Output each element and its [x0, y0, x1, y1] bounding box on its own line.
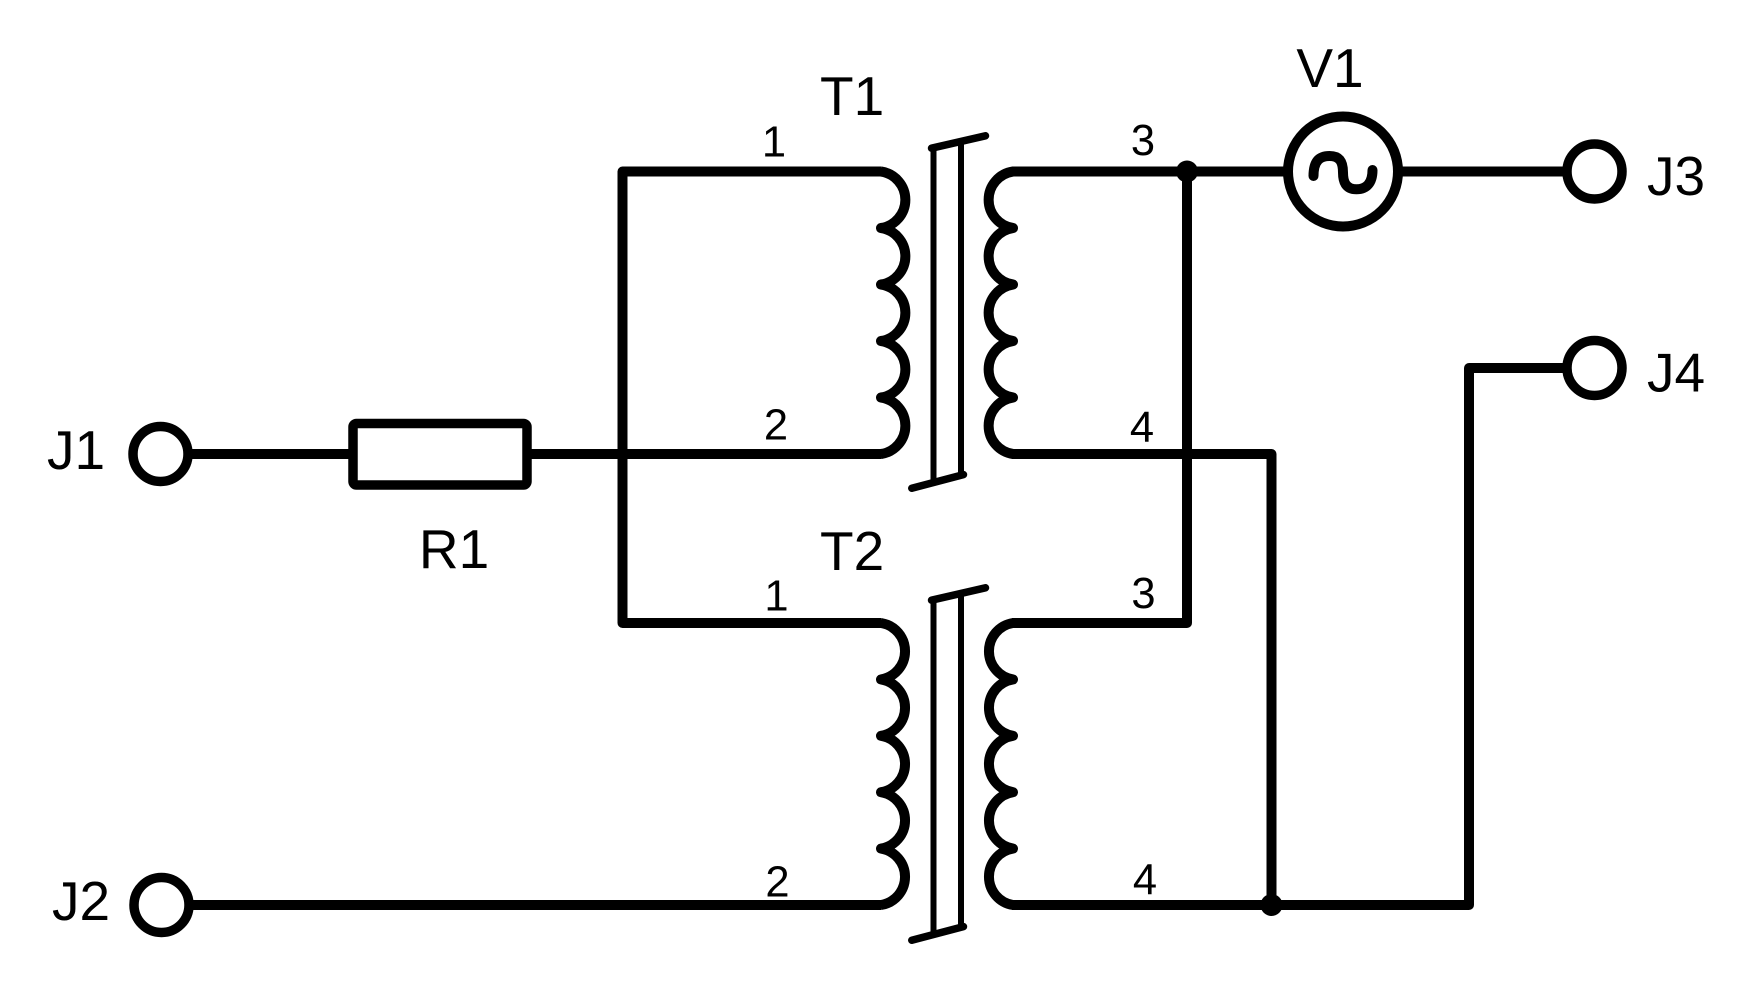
svg-text:R1: R1: [419, 518, 489, 580]
T2 secondary winding (pins 3-4): [989, 623, 1013, 905]
T1 primary winding (pins 1-2): [881, 172, 905, 455]
svg-text:2: 2: [764, 402, 788, 450]
T1 secondary winding (pins 3-4): [989, 172, 1013, 455]
wire T1 pin 3 to V1: [1012, 167, 1288, 177]
connector J4: [1567, 341, 1622, 396]
svg-text:4: 4: [1133, 856, 1157, 904]
wire J1 to R1: [192, 449, 357, 459]
svg-text:V1: V1: [1296, 37, 1363, 99]
connector J3: [1567, 144, 1622, 199]
wire T2 pin 4 to corner up to J4: [1012, 368, 1567, 905]
svg-text:J3: J3: [1647, 145, 1705, 207]
svg-text:J4: J4: [1647, 342, 1705, 404]
svg-text:T1: T1: [820, 65, 884, 127]
svg-text:J1: J1: [47, 419, 105, 481]
svg-text:2: 2: [765, 859, 789, 907]
T2 core: [912, 588, 986, 941]
transformer T2: [881, 588, 1013, 941]
T1 core: [912, 136, 986, 489]
svg-text:1: 1: [764, 573, 788, 621]
svg-text:3: 3: [1131, 117, 1155, 165]
wire R1 to T1 pin 2: [527, 449, 882, 459]
transformer T1: [881, 136, 1013, 489]
junction dot node T1.3/T2.3/V1: [1176, 161, 1198, 183]
wire J2 to T2 pin 2: [193, 900, 882, 910]
T2 primary winding (pins 1-2): [881, 623, 905, 905]
svg-text:4: 4: [1130, 404, 1154, 452]
resistor R1: [353, 424, 527, 486]
wire T1 pin 4 down to node: [1012, 454, 1272, 905]
wire node down to T2 pin 3: [1012, 172, 1187, 624]
svg-text:J2: J2: [52, 870, 110, 932]
junction dot node T1.4/T2.4/J4: [1261, 894, 1283, 916]
voltage source V1: [1288, 117, 1398, 227]
svg-text:1: 1: [762, 119, 786, 167]
connector J1: [133, 427, 188, 482]
wire V1 to J3: [1398, 167, 1567, 177]
wire T1 pin 1 / vertical / T2 pin 1: [623, 172, 882, 624]
svg-text:T2: T2: [820, 520, 884, 582]
connector J2: [134, 878, 189, 933]
svg-text:3: 3: [1131, 570, 1155, 618]
